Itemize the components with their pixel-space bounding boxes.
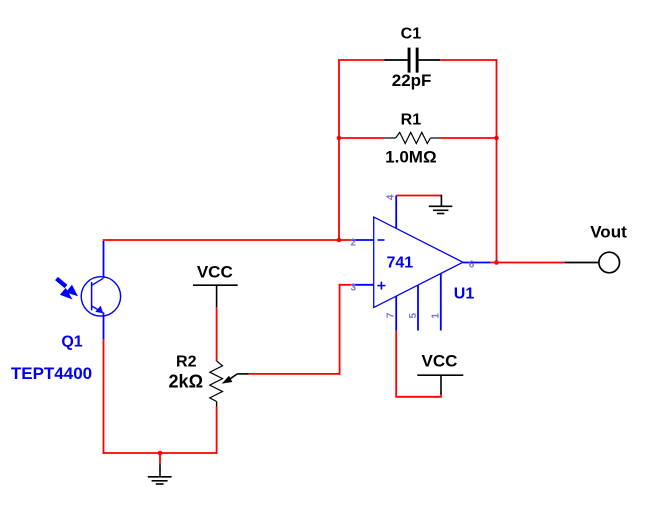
wire right vertical feedback branch bbox=[496, 59, 498, 262]
svg-text:C1: C1 bbox=[401, 25, 422, 42]
svg-text:3: 3 bbox=[351, 282, 357, 293]
wire R1 left bbox=[339, 137, 384, 139]
svg-text:VCC: VCC bbox=[422, 351, 458, 370]
junction dot ground bottom bbox=[158, 451, 163, 456]
wire R2 bottom bbox=[216, 407, 218, 454]
svg-text:7: 7 bbox=[386, 312, 397, 318]
wire pin6 output bbox=[491, 262, 565, 264]
ground at pin4 bbox=[429, 195, 453, 214]
junction dot R1 left bbox=[337, 136, 342, 141]
wire left vertical feedback branch bbox=[338, 59, 340, 240]
ground at bottom bbox=[148, 465, 172, 485]
VCC symbol left bbox=[193, 285, 238, 307]
svg-text:741: 741 bbox=[386, 255, 413, 272]
wire pin3 vertical bbox=[339, 284, 341, 375]
pin 7 stub bbox=[395, 296, 397, 330]
svg-text:5: 5 bbox=[408, 312, 419, 318]
op-amp U1 triangle bbox=[374, 217, 463, 308]
pin 4 stub bbox=[395, 196, 397, 229]
svg-text:2: 2 bbox=[351, 238, 357, 249]
pin 6 stub bbox=[463, 262, 491, 264]
junction dot pin2 bbox=[337, 238, 342, 243]
svg-text:1: 1 bbox=[430, 313, 441, 319]
wire pin4 to ground bbox=[396, 195, 441, 197]
wire wiper horizontal bbox=[249, 373, 341, 375]
op-amp minus input mark bbox=[378, 239, 385, 241]
wire C1 left bbox=[338, 59, 384, 61]
svg-text:6: 6 bbox=[469, 259, 475, 270]
svg-text:22pF: 22pF bbox=[392, 71, 432, 90]
svg-text:2kΩ: 2kΩ bbox=[169, 371, 203, 391]
svg-text:4: 4 bbox=[386, 194, 397, 200]
R2 wiper arrow bbox=[222, 374, 249, 384]
wire Q1 emitter down bbox=[103, 338, 105, 454]
wire bottom horizontal bbox=[103, 452, 218, 454]
svg-text:Q1: Q1 bbox=[61, 334, 82, 351]
capacitor C1 bbox=[384, 48, 440, 73]
svg-text:U1: U1 bbox=[454, 285, 475, 302]
Q1 light arrow 2 bbox=[60, 288, 73, 300]
Q1 light arrow 1 bbox=[57, 279, 79, 297]
wire R1 right bbox=[440, 137, 496, 139]
junction dot pin6 bbox=[494, 260, 499, 265]
svg-text:1.0MΩ: 1.0MΩ bbox=[385, 147, 436, 166]
potentiometer R2 bbox=[210, 361, 223, 407]
wire R2 top bbox=[216, 307, 218, 361]
svg-text:TEPT4400: TEPT4400 bbox=[11, 364, 92, 383]
wire collector to pin2 bbox=[103, 239, 353, 241]
svg-text:VCC: VCC bbox=[197, 262, 233, 281]
wire pin3 horizontal bbox=[339, 284, 353, 286]
resistor R1 bbox=[384, 132, 440, 143]
junction dot R1 right bbox=[494, 136, 499, 141]
wire C1 right bbox=[440, 59, 497, 61]
svg-text:Vout: Vout bbox=[590, 222, 627, 241]
svg-text:R1: R1 bbox=[401, 111, 422, 128]
pin 2 stub bbox=[353, 239, 374, 241]
VCC symbol right bbox=[417, 375, 463, 394]
op-amp plus input mark bbox=[377, 282, 385, 290]
wire output lead black bbox=[564, 262, 598, 264]
phototransistor Q1 bbox=[81, 241, 120, 339]
pin 1 stub bbox=[440, 274, 442, 331]
pin 5 stub bbox=[417, 285, 419, 330]
wire ground stub bottom bbox=[159, 453, 161, 465]
output terminal Vout bbox=[599, 252, 620, 273]
pin 3 stub bbox=[353, 284, 374, 286]
wire pin7 down bbox=[396, 330, 441, 397]
svg-text:R2: R2 bbox=[176, 354, 197, 371]
